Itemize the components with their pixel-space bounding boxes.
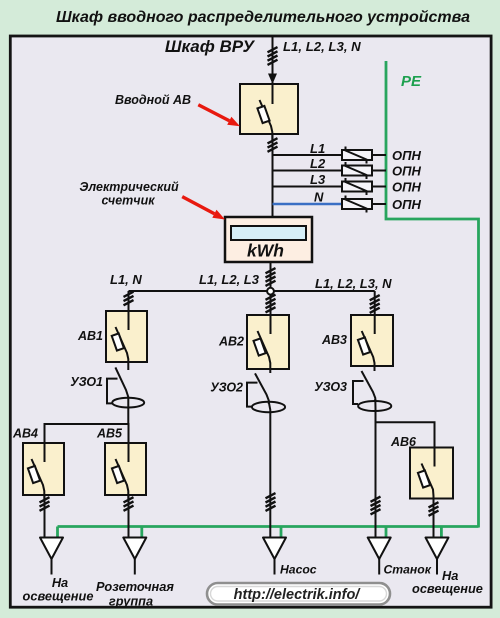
load arrow 1 (lighting) [40, 538, 63, 560]
wire hatch below meter [266, 268, 276, 286]
breaker AB1 symbol [112, 311, 129, 370]
svg-text:АВ5: АВ5 [96, 427, 123, 441]
SPD FV3 (ОПН) [342, 182, 372, 192]
wire N tap to SPD (blue) [273, 203, 343, 205]
svg-text:ОПН: ОПН [392, 164, 421, 179]
breaker AB4 symbol [28, 443, 45, 499]
wire hatch below AB6 [429, 502, 439, 516]
wire hatch above Stanok load [371, 497, 381, 515]
svg-text:L1, N: L1, N [110, 272, 142, 287]
wire: UZO3 output [374, 399, 376, 538]
PE conductor (green) [58, 61, 479, 538]
RCD UZO1 symbol [107, 367, 144, 424]
svg-text:http://electrik.info/: http://electrik.info/ [234, 587, 362, 603]
RCD UZO3 symbol [353, 371, 391, 411]
breaker AB5 symbol [112, 443, 129, 499]
wire: branch 1 drop [128, 291, 130, 311]
load arrow 2 (sockets) [123, 538, 146, 560]
svg-text:Насос: Насос [280, 563, 317, 577]
svg-text:Электрический: Электрический [79, 180, 179, 194]
breaker AB6 symbol [418, 448, 435, 504]
svg-text:АВ4: АВ4 [12, 427, 38, 441]
wire L1 tap to SPD [273, 154, 343, 156]
svg-text:kWh: kWh [247, 241, 284, 261]
wire: AB6 to load [433, 499, 435, 538]
wire: meter output down [270, 262, 272, 315]
svg-text:АВ6: АВ6 [390, 435, 417, 449]
wire L3 tap to SPD [273, 186, 343, 188]
distribution bus [129, 290, 375, 292]
wire: UZO1 split to AB4/AB5 [45, 424, 129, 443]
wire hatch below AB5 [124, 497, 134, 511]
svg-text:УЗО3: УЗО3 [314, 380, 347, 394]
svg-text:освещение: освещение [412, 581, 483, 596]
RCD UZO2 symbol [247, 373, 285, 412]
load arrow 5 (lighting right) [426, 538, 449, 560]
wire: main incoming drop [272, 36, 274, 84]
svg-text:АВ1: АВ1 [77, 329, 103, 343]
wire hatch branch 1 [124, 292, 134, 306]
svg-text:Станок: Станок [384, 563, 432, 577]
wire hatch branch 2 (below junction) [266, 295, 276, 313]
SPD FV1 (ОПН) [342, 150, 372, 160]
wire hatch below breaker [268, 138, 278, 152]
svg-text:Вводной АВ: Вводной АВ [115, 93, 191, 107]
wire: AB5 to load [128, 495, 130, 538]
svg-text:Шкаф ВРУ: Шкаф ВРУ [165, 37, 256, 56]
svg-text:PE: PE [401, 73, 422, 90]
svg-text:ОПН: ОПН [392, 197, 421, 212]
breaker AB5 box [105, 443, 146, 495]
svg-text:L1, L2, L3, N: L1, L2, L3, N [315, 276, 392, 291]
junction node on bus [267, 288, 274, 295]
badge electrik.info [207, 583, 390, 605]
breaker QF main symbol [257, 84, 272, 140]
svg-text:L1, L2, L3: L1, L2, L3 [199, 272, 260, 287]
svg-text:группа: группа [109, 594, 153, 609]
load arrow 3 (pump) [263, 538, 286, 560]
wire: branch to AB6 [376, 422, 435, 447]
svg-text:L2: L2 [310, 156, 326, 171]
wire hatch branch 3 [370, 295, 380, 313]
breaker AB2 symbol [254, 315, 271, 373]
breaker AB4 box [23, 443, 64, 495]
svg-text:L1: L1 [310, 141, 325, 156]
svg-text:ОПН: ОПН [392, 180, 421, 195]
svg-text:Розеточная: Розеточная [96, 579, 174, 594]
breaker AB3 symbol [358, 315, 375, 371]
svg-text:Шкаф вводного распределительно: Шкаф вводного распределительного устройс… [56, 9, 470, 26]
load arrow 4 (machine) [368, 538, 391, 560]
svg-text:N: N [314, 190, 324, 205]
arrowhead on incoming wire [268, 74, 277, 85]
svg-text:УЗО2: УЗО2 [210, 381, 243, 395]
wire hatch below AB4 [40, 497, 50, 511]
wire L2 tap to SPD [273, 170, 343, 172]
wire hatch: incoming multiconductor marks [268, 47, 278, 65]
breaker QF main (Вводной АВ) box [240, 84, 298, 134]
svg-text:L1, L2, L3, N: L1, L2, L3, N [283, 39, 361, 54]
meter display window [231, 226, 306, 240]
wire: breaker to meter [272, 134, 274, 217]
wire: AB4 to load [44, 495, 46, 538]
breaker AB3 box [351, 315, 393, 366]
meter kWh box [225, 217, 312, 262]
svg-text:L3: L3 [310, 172, 326, 187]
red arrow to breaker [198, 105, 240, 127]
wire: branch 3 drop [374, 291, 376, 315]
SPD FV4 (ОПН) [342, 199, 372, 209]
svg-text:счетчик: счетчик [101, 194, 155, 208]
breaker AB1 box [106, 311, 147, 362]
svg-text:УЗО1: УЗО1 [70, 375, 103, 389]
svg-text:АВ3: АВ3 [321, 333, 347, 347]
wire: UZO2 output [269, 402, 271, 538]
svg-text:освещение: освещение [23, 589, 94, 604]
wire hatch above Nasos load [266, 493, 276, 511]
red arrow to meter [182, 197, 225, 220]
svg-text:АВ2: АВ2 [218, 335, 244, 349]
breaker AB6 box [410, 448, 453, 499]
svg-text:ОПН: ОПН [392, 148, 421, 163]
SPD FV2 (ОПН) [342, 166, 372, 176]
breaker AB2 box [247, 315, 289, 369]
